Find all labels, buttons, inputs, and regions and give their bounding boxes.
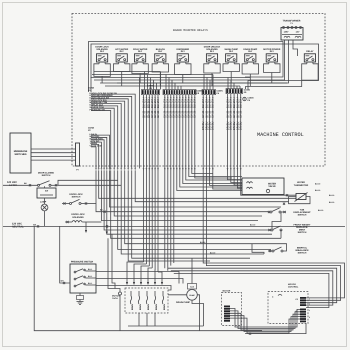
svg-text:BU-19: BU-19 <box>315 189 320 192</box>
wires into motor with arrows <box>126 262 163 285</box>
svg-text:DR-BU: DR-BU <box>240 122 243 130</box>
wire color labels <box>200 182 334 254</box>
svg-text:SWITCH: SWITCH <box>298 231 307 234</box>
wire inertial nest <box>252 244 287 254</box>
svg-text:DOOR LOCK: DOOR LOCK <box>69 193 83 196</box>
connector CONN P2 label <box>88 127 95 133</box>
svg-text:MAIN: MAIN <box>163 304 166 310</box>
relay K7 WASH PUMP RLY <box>224 48 238 64</box>
svg-text:INERTIAL: INERTIAL <box>297 246 308 249</box>
svg-text:TACH: TACH <box>112 297 118 300</box>
water thermistor RT1 <box>294 181 309 202</box>
drain pump M2 <box>176 284 197 304</box>
wire bus runs to connectors <box>91 72 288 90</box>
machine control dashed enclosure <box>72 14 325 167</box>
wire pressure feed <box>60 226 70 284</box>
svg-text:FRONT WEIGHT: FRONT WEIGHT <box>294 223 312 226</box>
svg-text:RELAY: RELAY <box>306 50 314 53</box>
svg-text:BU-19: BU-19 <box>200 241 205 244</box>
svg-text:SWITCH: SWITCH <box>298 252 307 255</box>
svg-text:GY-30: GY-30 <box>240 110 243 118</box>
svg-text:PUMP: PUMP <box>189 294 195 297</box>
wire neutral bus <box>3 223 345 227</box>
svg-text:120V: 120V <box>284 31 289 34</box>
svg-text:VALVE: VALVE <box>268 185 276 188</box>
svg-text:TUB: TUB <box>300 208 305 211</box>
svg-text:THERMISTOR: THERMISTOR <box>294 184 309 187</box>
svg-text:LAMP: LAMP <box>40 200 47 203</box>
svg-text:NEUTRAL: NEUTRAL <box>12 226 24 229</box>
motor connector dashed box <box>222 289 242 325</box>
wire top bus B <box>91 44 319 92</box>
wire front weight down <box>280 230 282 238</box>
svg-text:MAIN: MAIN <box>147 304 150 310</box>
svg-text:SOLENOID: SOLENOID <box>72 216 84 219</box>
wire thermistor loop <box>289 197 311 204</box>
wires motor windings to bus <box>139 313 155 326</box>
front weight displacement switch S4 <box>268 223 311 234</box>
pressure switch S6 <box>70 260 96 293</box>
svg-text:BU-1: BU-1 <box>88 268 92 271</box>
wire labels under connectors <box>142 98 242 130</box>
wires membrane to connector <box>31 149 76 160</box>
wire bundle P5 routing <box>203 95 242 266</box>
wire motor tach leads <box>108 234 122 331</box>
door lock switch S2 <box>62 193 96 205</box>
wire 120VAC line <box>3 182 38 186</box>
svg-text:RLY: RLY <box>138 50 143 53</box>
wire bundle P9 to valve <box>228 94 297 195</box>
wires CONN P1 fanout <box>90 92 136 169</box>
connector CONN P9 <box>226 89 250 95</box>
pin ticks below machine control <box>95 169 241 171</box>
relay K10 RELAY <box>304 50 315 64</box>
label 120 VAC L1 <box>7 181 17 187</box>
svg-text:BU-1: BU-1 <box>88 275 92 278</box>
svg-text:DOOR CLOSED: DOOR CLOSED <box>38 172 55 175</box>
inertial imbalance switch S5 <box>268 246 309 254</box>
svg-text:P2: P2 <box>296 298 298 301</box>
wire nested loops to motor control <box>168 263 345 308</box>
wire transformer secondary <box>117 40 298 83</box>
svg-text:MAIN: MAIN <box>155 304 158 310</box>
wire lamp leads <box>44 186 46 226</box>
svg-text:RLY: RLY <box>158 50 163 53</box>
wire loops under relays <box>94 64 318 80</box>
svg-text:RLY: RLY <box>120 50 125 53</box>
connector CONN P8 <box>163 90 203 96</box>
wire relay loop drops <box>102 72 272 87</box>
svg-text:SW: SW <box>45 190 48 193</box>
wire bottom bus 2 <box>128 325 204 327</box>
door closed switch S1 <box>38 172 59 187</box>
svg-text:5: 5 <box>309 316 310 319</box>
svg-text:BU-1: BU-1 <box>88 282 92 285</box>
relay K1 DOOR LOCK SOLENOID RLY <box>95 46 109 64</box>
wire door switch to board <box>58 180 121 185</box>
relay K2 HOT WATER RLY <box>115 48 128 64</box>
svg-text:BU-19: BU-19 <box>329 201 334 204</box>
motor windings dashed box <box>112 288 168 313</box>
wire bus relay10 extra <box>246 80 302 89</box>
svg-text:BU-19: BU-19 <box>250 224 255 227</box>
svg-text:PRESSURE SWITCH: PRESSURE SWITCH <box>71 260 94 263</box>
svg-text:WATER: WATER <box>268 183 276 186</box>
wire nest left bundle <box>96 171 296 262</box>
svg-text:RLY: RLY <box>100 50 105 53</box>
svg-text:BU-17A: BU-17A <box>240 99 243 108</box>
svg-text:RLY: RLY <box>270 50 275 53</box>
connector membrane flex strip <box>76 143 80 172</box>
svg-text:BOARD MOUNTED RELAYS: BOARD MOUNTED RELAYS <box>173 29 208 32</box>
drum lamp <box>40 200 48 211</box>
wire bundle P8 descent <box>165 95 242 271</box>
chassis ground pressure switch <box>77 293 84 304</box>
svg-text:BU-19: BU-19 <box>315 182 320 185</box>
svg-text:MAIN: MAIN <box>131 304 134 310</box>
svg-text:SWITCH: SWITCH <box>42 174 51 177</box>
connector CONN P1 label <box>88 87 95 93</box>
label MACHINE CONTROL <box>257 132 304 138</box>
svg-text:MAIN: MAIN <box>139 304 142 310</box>
wire tub to front weight <box>272 212 281 229</box>
svg-text:DRAIN PUMP: DRAIN PUMP <box>176 301 190 304</box>
svg-text:SWITCH: SWITCH <box>72 196 81 199</box>
svg-text:RLY: RLY <box>248 50 253 53</box>
relay K6 DOOR UNLOCK SOLENOID RLY <box>204 46 221 64</box>
connector CONN P5 <box>202 90 223 96</box>
svg-text:MEMBRANE: MEMBRANE <box>14 150 28 153</box>
relay K5 DISPENSER RLY <box>176 48 189 64</box>
svg-text:WATER: WATER <box>297 181 305 184</box>
svg-text:RLY: RLY <box>229 50 234 53</box>
wire top bus A <box>89 42 284 93</box>
membrane switches box <box>10 133 31 173</box>
nest wire markers <box>100 194 288 234</box>
water valve assembly <box>242 178 284 195</box>
tub displacement switch S3 <box>268 208 311 217</box>
svg-text:SWITCHES: SWITCHES <box>14 153 27 156</box>
svg-text:12V: 12V <box>296 31 300 34</box>
wire pressure outputs <box>96 272 183 291</box>
connector CONN P4 <box>142 84 160 94</box>
relay K4 BLEACH RLY <box>155 48 166 64</box>
wire bundle P4 descent <box>144 95 159 272</box>
svg-text:RLY: RLY <box>181 50 186 53</box>
svg-text:BU-19: BU-19 <box>329 194 334 197</box>
wire stub x139 <box>139 78 141 169</box>
connector P6 <box>243 97 254 103</box>
svg-text:MENT: MENT <box>299 229 306 232</box>
svg-text:1: 1 <box>309 309 310 312</box>
label BOARD MOUNTED RELAYS <box>173 29 208 32</box>
wires CONN P2 fanout <box>90 133 110 169</box>
wire left feeder to bottom bus <box>34 226 262 330</box>
label 120 VAC NEUTRAL <box>12 223 24 229</box>
svg-text:BU-19: BU-19 <box>318 209 323 212</box>
svg-text:MACHINE CONTROL: MACHINE CONTROL <box>257 132 304 138</box>
svg-text:MOTOR: MOTOR <box>223 289 231 292</box>
wire drain pump leads <box>168 258 204 331</box>
svg-text:TRANSFORMER: TRANSFORMER <box>283 20 301 23</box>
wires motor to motor control links <box>230 309 300 334</box>
svg-text:DISPLACEMENT: DISPLACEMENT <box>293 211 311 214</box>
svg-text:CONTROL: CONTROL <box>288 285 299 288</box>
motor control dashed box <box>268 283 310 324</box>
transformer T1 <box>281 20 303 41</box>
svg-text:DISPLACE-: DISPLACE- <box>296 226 308 229</box>
svg-text:RLY: RLY <box>210 50 215 53</box>
wire motor control ground exit <box>245 324 306 335</box>
svg-text:SWITCH: SWITCH <box>298 214 307 217</box>
svg-text:IMBALANCE: IMBALANCE <box>295 249 309 252</box>
svg-text:BU-19: BU-19 <box>210 252 215 255</box>
door switch aux box <box>37 188 56 198</box>
relay K8 DRAIN PUMP RLY <box>243 48 257 64</box>
relay K9 MOTOR POWER RLY <box>263 48 280 64</box>
relay K3 COLD WATER RLY <box>133 48 148 64</box>
svg-text:MOTOR: MOTOR <box>288 283 296 286</box>
door lock solenoid L2 <box>65 213 101 233</box>
svg-text:DOOR LOCK: DOOR LOCK <box>71 213 85 216</box>
